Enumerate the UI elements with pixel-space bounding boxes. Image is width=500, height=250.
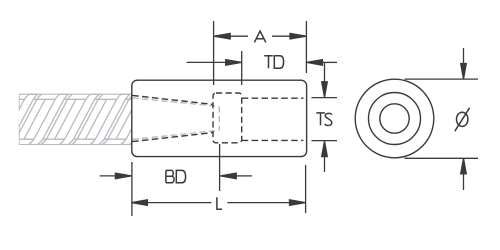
rebar thin rib 5 [147,99,168,139]
rebar rib band 4 [90,94,130,144]
center stop cavity (dashed rounded rect) [213,93,242,143]
label TS [316,113,332,126]
rebar longitudinal line top [19,98,132,100]
rebar rib shadow line 1 [10,94,41,144]
right bore top (dashed) [242,97,304,99]
rebar rib shadow line 3 [72,94,103,144]
label L [217,197,222,209]
rebar rib band 3 [59,94,99,144]
diameter extension line bottom [405,157,479,159]
diameter arrow top [461,48,467,79]
rebar rib band 2 [29,94,69,144]
rebar (left, light gray with helical ribs) [0,94,168,145]
diameter extension line top [405,78,479,80]
rebar thin rib 1 [24,99,45,139]
dimension A [214,33,306,39]
extension line L left [131,162,133,216]
right bore bottom (dashed) [242,139,304,141]
dimension TD [187,60,338,66]
dimension L [131,200,305,206]
dimension TS [312,63,338,172]
diameter arrow bottom [461,158,467,190]
hidden rebar end inside coupler (light gray dashed taper) [133,98,220,139]
rebar thin rib 2 [55,99,76,139]
bore taper bottom (dashed) [132,133,213,142]
rebar thin rib 0 [0,99,15,139]
rebar thin rib 4 [116,99,137,139]
end view middle circle [369,93,421,145]
rebar rib shadow line 2 [41,94,72,144]
end view outer circle [355,79,434,158]
bore taper top (dashed) [132,95,213,104]
extension line TD left [241,51,243,85]
label TD [264,56,283,68]
extension line A left [213,21,215,85]
dimension BD [100,173,252,179]
coupler body [132,80,307,156]
rebar outline [19,94,133,145]
extension line L right [305,165,307,213]
rebar rib band 5 [121,94,161,144]
diameter symbol [455,108,470,131]
rebar rib shadow line 5 [133,94,164,144]
rebar thin rib 3 [85,99,106,139]
rebar rib shadow line 4 [103,94,134,144]
label BD [166,170,186,182]
rebar rib band 1 [0,94,38,144]
extension line A/TD right [305,21,307,73]
extension line BD right [219,144,221,191]
label A [254,31,265,42]
end view inner circle [380,104,409,133]
rebar longitudinal line bottom [19,138,132,140]
